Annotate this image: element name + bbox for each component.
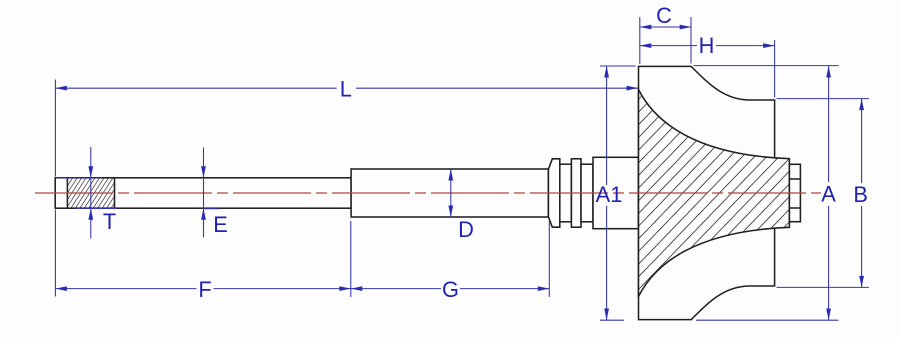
dimension T line: [90, 147, 92, 239]
arrow G left: [351, 286, 363, 291]
arrow T bottom: [88, 208, 93, 220]
wheel nose boss: [789, 164, 800, 221]
wheel hub neck block: [593, 157, 639, 228]
arrow D bottom: [448, 206, 453, 218]
svg-text:B: B: [853, 182, 868, 207]
svg-text:L: L: [340, 77, 352, 102]
dimension C line: [640, 26, 691, 28]
arrow T top: [88, 166, 93, 178]
svg-text:H: H: [699, 33, 715, 58]
E landing segment: [204, 208, 220, 210]
T landing segment top: [56, 177, 102, 179]
extension line left end of shaft: [54, 80, 56, 297]
arrow A1 top: [604, 66, 609, 78]
extension line A/A1 top: [600, 65, 839, 67]
dimension A1 line: [606, 66, 608, 320]
shaft threaded section T (hatched): [67, 178, 114, 208]
svg-text:E: E: [213, 212, 228, 237]
svg-text:A: A: [821, 182, 836, 207]
arrow L right: [627, 86, 639, 91]
arrow C right: [680, 25, 692, 30]
arrow E top: [201, 166, 206, 178]
svg-text:D: D: [458, 217, 474, 242]
extension line F/G divider: [350, 221, 352, 297]
arrow F right: [339, 286, 351, 291]
svg-text:A1: A1: [596, 182, 623, 207]
arrow C left: [640, 25, 652, 30]
arrow A1 bottom: [604, 309, 609, 321]
arrow H left: [640, 43, 652, 48]
svg-text:C: C: [656, 3, 672, 28]
arrow D top: [448, 169, 453, 181]
arrow A bottom: [826, 309, 831, 321]
svg-text:F: F: [198, 277, 211, 302]
dimension G line: [351, 288, 550, 290]
arrow B bottom: [859, 276, 864, 288]
dimension B line: [861, 99, 863, 288]
arrow L left: [55, 86, 67, 91]
arrow H right: [763, 43, 775, 48]
extension line B bottom: [777, 286, 870, 288]
arrow A top: [826, 66, 831, 78]
svg-text:T: T: [103, 209, 116, 234]
dimension H line: [640, 45, 775, 47]
shaft section E (small diameter shaft): [55, 178, 351, 208]
dimension F line: [55, 288, 350, 290]
collar ring 1 (chamfered): [548, 159, 559, 227]
dimension A line: [828, 66, 830, 320]
extension line A/A1 bottom: [600, 319, 839, 321]
arrow G right: [538, 286, 550, 291]
extension line C/H left: [639, 17, 641, 64]
extension line B top: [777, 98, 870, 100]
svg-text:G: G: [442, 277, 459, 302]
turbine wheel blade envelope outline: [639, 66, 775, 319]
nose groove line upper: [789, 178, 800, 180]
extension line C right: [690, 17, 692, 64]
arrow E bottom: [201, 208, 206, 220]
shaft section D (large diameter): [351, 169, 548, 217]
dimension E line: [203, 148, 205, 238]
collar groove 1: [560, 164, 572, 222]
red centerline: [33, 192, 821, 194]
extension line G right: [548, 221, 550, 297]
nose groove line lower: [789, 207, 800, 209]
arrow F left: [55, 286, 67, 291]
collar groove 2: [581, 164, 593, 222]
arrow B top: [859, 99, 864, 111]
dimension D line: [450, 169, 452, 217]
dimension L line: [55, 87, 638, 89]
extension line H right: [774, 40, 776, 98]
T landing segment bottom: [75, 208, 117, 210]
collar ring 2: [571, 159, 581, 227]
turbine wheel hub cross-section (hatched): [639, 90, 790, 297]
